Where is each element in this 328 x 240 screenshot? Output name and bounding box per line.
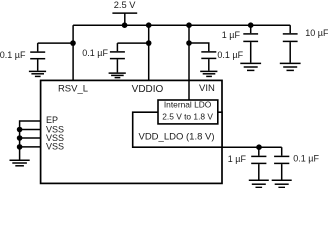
- wire: VIN drop to C3: [189, 43, 209, 51]
- ground: below C1: [29, 71, 46, 76]
- block: Internal LDO: [158, 100, 218, 124]
- junction dot: C2 tap on VDDIO drop: [146, 40, 152, 46]
- junction dot: supply tap on rail: [122, 22, 128, 28]
- wire: rail end drop to C5: [289, 25, 291, 33]
- svg-text:VIN: VIN: [199, 83, 215, 94]
- supply 2.5 V bar symbol: [112, 12, 137, 14]
- ground: below C7: [272, 180, 292, 187]
- wire: C2 to VDDIO drop: [117, 42, 148, 44]
- wire: VSS pin 3: [20, 146, 41, 148]
- junction dot: VSS3 on bus: [17, 144, 23, 150]
- capacitor C1: [30, 43, 45, 71]
- junction dot: C3 tap on VIN drop: [186, 40, 192, 46]
- wire: VSS pin 2: [20, 137, 41, 139]
- junction dot: VSS2 on bus: [17, 135, 23, 141]
- svg-text:0.1 µF: 0.1 µF: [217, 50, 243, 60]
- svg-text:2.5 V: 2.5 V: [114, 0, 137, 10]
- svg-text:0.1 µF: 0.1 µF: [293, 154, 319, 164]
- svg-text:RSV_L: RSV_L: [58, 83, 88, 94]
- ground: below C6: [249, 180, 269, 187]
- IC box U1: [41, 80, 222, 183]
- capacitor C2: [110, 43, 125, 72]
- wire: top 2.5V rail: [73, 24, 290, 26]
- ground: below C5: [280, 63, 301, 70]
- capacitor C6: [251, 147, 266, 179]
- svg-text:0.1 µF: 0.1 µF: [0, 50, 26, 60]
- wire: VDDIO pin drop (rail to box): [148, 25, 150, 80]
- junction dot: C4 on rail: [248, 22, 254, 28]
- ground: below C4: [240, 63, 261, 70]
- capacitor C7: [274, 147, 289, 179]
- wire: VDD_LDO output to bottom caps: [222, 146, 282, 148]
- wire: EP pin to ground bus: [20, 121, 41, 160]
- wire: VIN pin drop (rail into box to internal LDO): [188, 25, 190, 100]
- junction dot: VSS1 on bus: [17, 127, 23, 133]
- junction dot: VDDIO drop on rail: [146, 22, 152, 28]
- ground: below C3: [200, 71, 217, 76]
- svg-text:VDDIO: VDDIO: [132, 84, 164, 95]
- svg-text:0.1 µF: 0.1 µF: [82, 48, 108, 58]
- capacitor C4: [243, 25, 258, 63]
- wire: 2.5V supply lead: [124, 13, 126, 25]
- wire: C1 to RSV_L drop: [38, 42, 73, 44]
- junction dot: VIN drop on rail: [186, 22, 192, 28]
- svg-text:VDD_LDO (1.8 V): VDD_LDO (1.8 V): [138, 132, 214, 143]
- block: VDD_LDO (1.8 V): [133, 112, 222, 147]
- wire: RSV_L pin drop (rail to box): [72, 25, 74, 80]
- ground: below C2: [109, 73, 126, 78]
- svg-text:10 µF: 10 µF: [305, 28, 328, 38]
- ground: EP/VSS bus: [10, 160, 30, 166]
- svg-text:Internal LDO: Internal LDO: [164, 100, 212, 110]
- svg-text:2.5 V to 1.8 V: 2.5 V to 1.8 V: [162, 112, 213, 122]
- wire: VSS pin 1: [20, 129, 41, 131]
- junction dot: C1 tap on RSV_L drop: [70, 40, 76, 46]
- junction dot: C6 tap on output wire: [256, 144, 262, 150]
- capacitor C3: [201, 52, 216, 71]
- capacitor C5: [283, 34, 298, 63]
- svg-text:VSS: VSS: [46, 142, 64, 152]
- svg-text:1 µF: 1 µF: [228, 154, 247, 164]
- svg-text:1 µF: 1 µF: [222, 30, 241, 40]
